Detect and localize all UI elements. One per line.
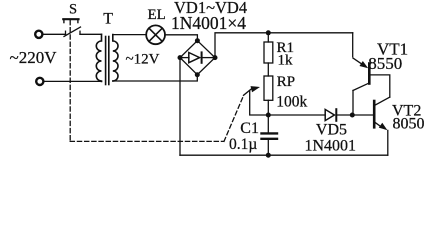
lamp EL — [146, 25, 165, 44]
label ~220V — [10, 48, 58, 67]
wire RP wiper to bottom junction — [250, 91, 269, 116]
svg-text:~12V: ~12V — [126, 52, 160, 68]
label VT2 — [392, 103, 421, 120]
transformer core — [105, 37, 107, 85]
potentiometer RP body — [264, 76, 273, 100]
svg-text:1N4001: 1N4001 — [305, 137, 357, 154]
wire rail corner down to VT1 emitter — [352, 33, 354, 57]
svg-text:RP: RP — [277, 74, 295, 90]
potentiometer RP wiper arrow — [244, 89, 252, 96]
svg-text:0.1µ: 0.1µ — [229, 136, 257, 153]
junction dot RP/VD5/C1 — [266, 113, 271, 118]
diode VD5 — [325, 109, 334, 120]
wire terminal to switch — [43, 33, 66, 35]
wire junction to VD5 — [268, 114, 325, 116]
transistor VT1 (8550 PNP) — [353, 58, 390, 115]
wire VT2 base — [352, 114, 373, 116]
dashed linkage switch to RP — [70, 21, 244, 142]
svg-text:T: T — [103, 10, 113, 27]
label 1N4001x4 — [171, 13, 246, 33]
wire lamp to bridge top corner — [165, 35, 197, 41]
capacitor C1 — [267, 115, 269, 133]
label 0.1u — [229, 136, 257, 153]
svg-text:8050: 8050 — [393, 115, 425, 132]
svg-text:VD5: VD5 — [316, 122, 347, 139]
label T — [103, 10, 113, 27]
svg-text:1N4001×4: 1N4001×4 — [171, 13, 246, 33]
wire terminal to primary bottom — [44, 80, 102, 82]
label R1 — [277, 40, 295, 56]
terminal J2 bottom-left — [36, 78, 43, 85]
label 8050 — [393, 115, 425, 132]
svg-text:8550: 8550 — [368, 54, 402, 73]
junction dot top rail / R1 — [266, 30, 271, 35]
junction dot C1 bottom — [266, 153, 271, 158]
terminal J1 top-left — [35, 31, 42, 38]
svg-text:EL: EL — [148, 7, 166, 23]
switch S — [63, 19, 80, 36]
label VD1~VD4 — [174, 0, 247, 17]
transformer T secondary winding — [113, 35, 118, 81]
label RP — [277, 74, 295, 90]
wire bridge right corner to top rail — [215, 33, 353, 58]
label VD5 — [316, 122, 347, 139]
transistor VT2 (8050 NPN) — [374, 97, 390, 155]
label EL — [148, 7, 166, 23]
label VT1 — [377, 39, 408, 58]
resistor R1 — [267, 33, 269, 42]
label ~12V — [126, 52, 160, 68]
transformer T primary winding — [96, 34, 101, 81]
svg-text:~220V: ~220V — [10, 48, 58, 67]
svg-text:100k: 100k — [276, 94, 307, 111]
label 100k — [276, 94, 307, 111]
svg-text:S: S — [69, 2, 77, 18]
wire secondary top to lamp — [113, 34, 146, 36]
label 8550 — [368, 54, 402, 73]
junction dot VD5/VT1c/VT2b — [350, 113, 355, 118]
label C1 — [240, 120, 259, 137]
label 1N4001 — [305, 137, 357, 154]
wire secondary bottom to bridge bottom corner — [113, 75, 198, 81]
wire bottom rail — [180, 154, 388, 156]
svg-text:C1: C1 — [240, 120, 259, 137]
bridge rectifier VD1-VD4 — [178, 38, 218, 77]
label S — [69, 2, 77, 18]
wire left riser (bridge DC- down) — [179, 58, 181, 156]
wire switch to transformer primary — [80, 33, 102, 35]
svg-text:1k: 1k — [278, 53, 294, 69]
label 1k — [278, 53, 294, 69]
